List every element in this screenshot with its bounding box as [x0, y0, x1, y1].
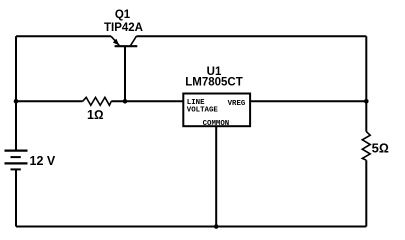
wire top rail right segment: [136, 35, 366, 37]
svg-text:VREG: VREG: [228, 100, 246, 108]
wire output segment: [250, 100, 366, 102]
node junction common pin to bottom rail: [214, 224, 219, 229]
svg-text:VOLTAGE: VOLTAGE: [187, 106, 219, 114]
node junction output on right rail: [364, 99, 369, 104]
node junction base wire on input wire: [123, 99, 128, 104]
svg-text:1Ω: 1Ω: [87, 108, 104, 122]
resistor R1 1 ohm: [83, 97, 112, 105]
wire top rail left segment: [16, 35, 111, 37]
svg-text:12 V: 12 V: [30, 154, 56, 168]
svg-text:Q1: Q1: [115, 9, 131, 21]
wire middle input right segment: [111, 100, 183, 102]
battery V1 12V: [5, 151, 28, 170]
wire right rail upper: [365, 36, 367, 131]
resistor R2 5 ohm: [362, 132, 370, 161]
wire common vertical: [215, 126, 217, 226]
transistor Q1: [111, 36, 137, 46]
wire bottom rail: [16, 226, 366, 228]
regulator U1 LM7805CT box: [183, 94, 250, 127]
svg-text:5Ω: 5Ω: [372, 141, 389, 156]
wire middle input left segment: [16, 100, 83, 102]
svg-text:LM7805CT: LM7805CT: [185, 76, 243, 88]
wire right rail lower: [365, 160, 367, 226]
wire base vertical: [124, 46, 126, 101]
svg-text:TIP42A: TIP42A: [104, 22, 143, 34]
node junction input on left rail: [14, 99, 19, 104]
wire left rail lower: [15, 169, 17, 226]
wire left rail upper: [15, 36, 17, 150]
